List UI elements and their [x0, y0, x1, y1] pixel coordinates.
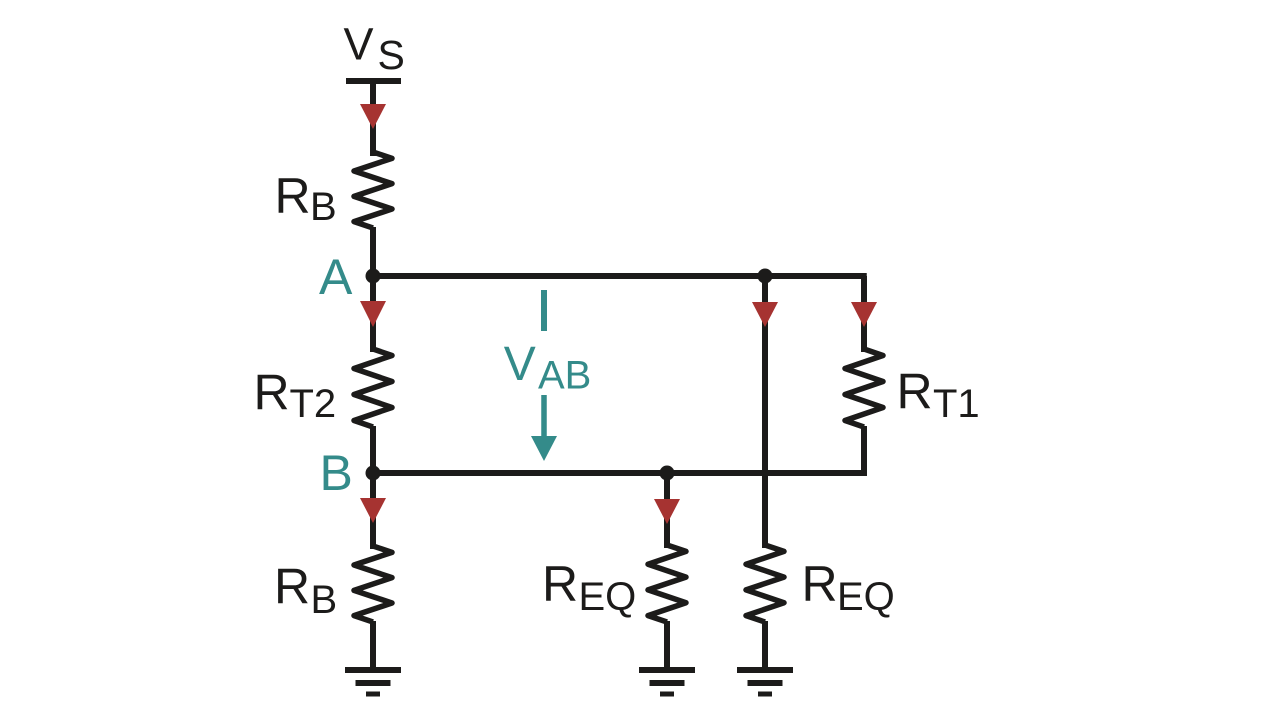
current arrow below node A	[360, 301, 386, 327]
VAB arrow shaft	[541, 395, 547, 441]
current arrow below VS	[360, 104, 386, 129]
current arrow below junction x=667	[654, 499, 680, 524]
current arrow on x=864 branch	[851, 302, 877, 327]
wire REQ right to ground	[762, 621, 768, 670]
wire node B to RB2	[370, 473, 376, 549]
wire RB2 to ground	[370, 621, 376, 670]
wire node B horizontal to RT1 bottom corner	[373, 470, 867, 476]
svg-text:AB: AB	[538, 354, 591, 398]
resistor RT2	[354, 349, 392, 427]
svg-text:R: R	[897, 364, 933, 420]
resistor RB2	[354, 546, 392, 622]
ground symbol right	[737, 667, 793, 673]
current arrow on x=765 branch	[752, 302, 778, 327]
svg-text:B: B	[311, 578, 338, 622]
label I current	[541, 290, 547, 331]
svg-text:R: R	[802, 556, 838, 612]
node B dot	[366, 466, 381, 481]
node A dot	[366, 269, 381, 284]
svg-text:R: R	[542, 556, 578, 612]
resistor REQ right	[746, 545, 784, 622]
svg-text:EQ: EQ	[837, 575, 895, 619]
wire node A horizontal to top-right corner	[373, 273, 867, 279]
svg-text:S: S	[378, 32, 405, 78]
svg-text:T1: T1	[933, 382, 980, 426]
resistor RT1	[845, 349, 883, 427]
wire junction to REQ left	[664, 473, 670, 548]
svg-text:EQ: EQ	[579, 575, 637, 619]
resistor RB1	[354, 152, 392, 228]
wire RB1 to node A	[370, 227, 376, 277]
current arrow below node B	[360, 498, 386, 523]
voltage source terminal bar	[346, 78, 401, 84]
junction dot on B line at x=667	[660, 466, 675, 481]
ground symbol middle	[639, 667, 695, 673]
junction dot on A line at x=765	[758, 269, 773, 284]
wire RT2 bottom to node B	[370, 426, 376, 474]
svg-text:V: V	[504, 338, 536, 391]
svg-text:V: V	[344, 19, 374, 70]
svg-text:T2: T2	[290, 382, 337, 426]
svg-text:B: B	[310, 185, 337, 229]
svg-text:B: B	[320, 445, 353, 501]
svg-text:R: R	[254, 365, 290, 421]
svg-text:A: A	[319, 249, 353, 305]
wire VS bar to resistor RB1	[370, 81, 376, 156]
wire vertical x=765 from A line to REQ right	[762, 276, 768, 548]
wire corner down to RT1	[861, 276, 867, 352]
wire REQ left to ground	[664, 621, 670, 670]
wire RT1 to B line	[861, 426, 867, 476]
svg-text:R: R	[275, 168, 311, 224]
resistor REQ left	[648, 545, 686, 622]
ground symbol left	[345, 667, 401, 673]
svg-text:R: R	[274, 559, 310, 615]
wire node A to RT2	[370, 276, 376, 352]
VAB arrow head	[531, 436, 557, 461]
